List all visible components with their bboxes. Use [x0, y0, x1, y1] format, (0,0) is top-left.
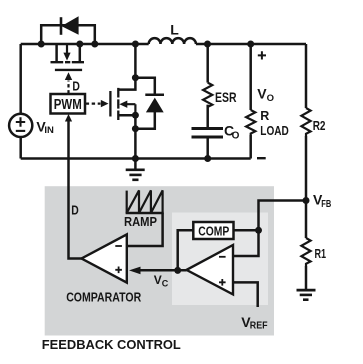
wire ramp to comparator minus: [127, 213, 163, 246]
output minus sign: [257, 157, 266, 159]
svg-text:FEEDBACK CONTROL: FEEDBACK CONTROL: [42, 338, 181, 352]
wire ESR branch: [206, 44, 209, 83]
Vc arrowhead into + input: [129, 267, 141, 275]
capacitor C0: [192, 129, 224, 138]
svg-text:FB: FB: [321, 199, 331, 210]
wire R2/R1 column: [305, 44, 308, 108]
feedback control shaded box: [45, 186, 274, 335]
PWM output dashed arrow to Q2 gate: [86, 100, 109, 107]
bulk arrow left: [127, 104, 135, 115]
ground main: [126, 159, 145, 180]
svg-text:O: O: [267, 93, 274, 104]
VIN source circle: [9, 114, 32, 137]
comparator U1 triangle: [82, 234, 127, 282]
minus sign error amp: [219, 256, 226, 258]
VIN plus sign: [16, 117, 25, 126]
wire error amp + input to VREF: [233, 282, 258, 307]
svg-text:V: V: [154, 273, 162, 287]
transistor Q1 PMOS body: [51, 45, 85, 70]
minus sign comparator: [115, 245, 122, 247]
wire Vc line: [138, 269, 187, 272]
error amp U2 triangle: [187, 245, 234, 294]
svg-text:IN: IN: [44, 125, 54, 136]
body diode branch wire: [135, 78, 154, 94]
wire top rail right segment: [196, 43, 306, 46]
diode D1 symbol: [41, 17, 95, 35]
inner error-amp shaded box: [172, 213, 268, 306]
wire COMP loop: [234, 229, 259, 232]
svg-text:C: C: [162, 279, 169, 289]
output plus sign: [258, 51, 266, 59]
wire VFB to error amp: [233, 201, 306, 257]
svg-text:COMP: COMP: [198, 224, 229, 238]
gate bar: [55, 69, 82, 71]
wire ground rail: [21, 157, 251, 160]
ground R1: [297, 290, 316, 300]
wire VIN branch: [19, 44, 22, 114]
transistor Q1 PMOS stubs: [55, 44, 58, 61]
svg-text:R1: R1: [315, 246, 327, 261]
body diode symbol: [145, 95, 164, 113]
svg-text:ESR: ESR: [215, 89, 237, 105]
svg-text:PWM: PWM: [54, 96, 82, 113]
wire switch node down: [134, 44, 137, 78]
PWM input arrow from comparator: [65, 114, 72, 122]
diode branch wire: [41, 25, 95, 44]
svg-text:D: D: [71, 203, 79, 217]
svg-text:O: O: [232, 130, 240, 141]
transistor Q2 NMOS body: [110, 88, 135, 120]
inductor L1: [149, 38, 196, 44]
svg-text:D: D: [72, 79, 80, 93]
svg-text:L: L: [170, 21, 179, 37]
wire top rail left segment: [21, 43, 149, 46]
resistor ESR: [203, 83, 212, 107]
gate drive dashed arrow up to Q1: [65, 72, 72, 93]
resistor RLOAD: [246, 110, 255, 135]
svg-text:LOAD: LOAD: [260, 124, 289, 138]
ramp waveform: [126, 190, 164, 213]
svg-text:RAMP: RAMP: [124, 215, 157, 229]
svg-text:R: R: [260, 109, 269, 123]
channel segments: [117, 88, 119, 120]
resistor R1: [301, 238, 310, 266]
wire RLOAD branch: [249, 44, 252, 110]
wire comparator output D up to PWM: [69, 121, 82, 259]
svg-text:R2: R2: [313, 118, 326, 133]
channel segments: [51, 61, 85, 63]
COMP block: [193, 222, 233, 239]
resistor R2: [301, 108, 310, 136]
transistor Q2 NMOS drain/source wires: [118, 78, 135, 90]
plus sign comparator: [115, 267, 122, 274]
svg-text:REF: REF: [250, 320, 268, 331]
bulk arrow down: [66, 45, 68, 53]
plus sign error amp: [219, 279, 226, 286]
VIN minus sign: [16, 130, 25, 132]
gate bar: [109, 91, 111, 117]
svg-text:COMPARATOR: COMPARATOR: [66, 291, 141, 305]
PWM block: [51, 94, 86, 114]
